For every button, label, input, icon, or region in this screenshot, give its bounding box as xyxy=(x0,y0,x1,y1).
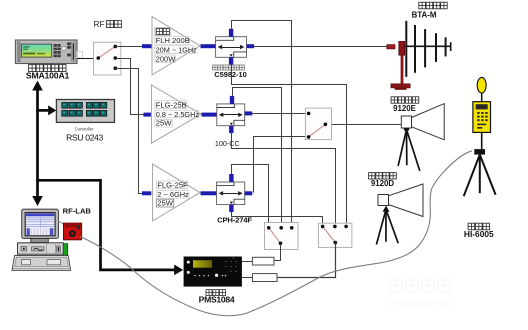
wire switch B to power sensor 1 xyxy=(275,244,281,261)
svg-text:BTA-M: BTA-M xyxy=(412,10,437,19)
svg-text:RSU 0243: RSU 0243 xyxy=(66,133,103,143)
controller RSU 0243 xyxy=(56,100,114,123)
signal generator SMA100A1 xyxy=(15,40,77,64)
control branch to RSU controller xyxy=(36,105,56,115)
switch B forward-power selector xyxy=(265,223,299,250)
svg-text:Controller: Controller xyxy=(74,126,94,131)
control bus signal generator to computer xyxy=(32,81,43,207)
wire coupler2 bottom to switch C middle xyxy=(232,133,336,227)
label 喇叭天线 9120D xyxy=(369,173,397,188)
wire switch C to power sensor 2 xyxy=(278,243,336,278)
amplifier FLG-25B xyxy=(144,85,217,143)
wire switch A output to horn 9120E xyxy=(325,124,401,126)
svg-text:HI-6005: HI-6005 xyxy=(464,229,494,239)
wire coupler1 bottom to switch C right xyxy=(232,65,347,227)
amplifier FLH 200B xyxy=(142,17,216,75)
svg-text:SMA100A1: SMA100A1 xyxy=(26,71,70,81)
wire coupler3 bottom to switch C left xyxy=(232,212,323,227)
RF switch xyxy=(94,42,121,75)
keyboard xyxy=(12,256,71,271)
tripod 9120E xyxy=(398,128,420,171)
floppy disk RF-LAB xyxy=(64,223,82,240)
wire sig-gen to RF switch xyxy=(77,51,83,58)
svg-text:200W: 200W xyxy=(156,55,177,64)
svg-text:photophoto.cn: photophoto.cn xyxy=(388,298,451,309)
power sensor 2 xyxy=(253,274,278,282)
wire coupler2 output to switch A input1 xyxy=(252,113,308,115)
label 宽带天线 BTA-M xyxy=(412,2,448,19)
horn antenna 9120E xyxy=(401,104,444,140)
wire coupler3 top to switch B left xyxy=(232,165,269,228)
label 场强表 HI-6005 xyxy=(464,223,494,239)
tripod 9120D xyxy=(376,206,398,245)
svg-text:FLG-25B: FLG-25B xyxy=(156,100,187,109)
switch A xyxy=(305,108,331,140)
computer case xyxy=(18,243,64,254)
coupler C5982-10 xyxy=(216,29,255,65)
svg-text:C5982-10: C5982-10 xyxy=(214,70,246,79)
power sensor 1 xyxy=(252,257,274,265)
control branch to power meter xyxy=(36,180,183,275)
wire switch to amp3 xyxy=(116,69,143,194)
wire switch to amp1 xyxy=(115,46,142,48)
watermark xyxy=(388,280,451,309)
label 功率计 PMS1084 xyxy=(199,290,235,305)
label 喇叭天线 9120E xyxy=(391,97,419,113)
wire power meter to sensor 2 xyxy=(242,277,253,279)
switch C reflected-power selector xyxy=(318,223,352,247)
coupler 100-CC xyxy=(217,96,253,133)
label Controller RSU 0243 xyxy=(66,126,103,142)
network card green xyxy=(63,244,67,256)
wire main line to BTA-M antenna xyxy=(254,46,387,48)
label 双定向耦合器 C5982-10 xyxy=(213,65,247,79)
horn antenna 9120D xyxy=(378,184,423,217)
wire coupler3 output to switch A input2 xyxy=(254,137,309,193)
wire power meter to sensor 1 xyxy=(242,261,253,263)
svg-text:FLH 200B: FLH 200B xyxy=(156,36,190,45)
wire monitor to floppy xyxy=(58,221,67,229)
svg-text:RF: RF xyxy=(94,20,105,29)
svg-text:PMS1084: PMS1084 xyxy=(199,295,235,305)
antenna BTA-M xyxy=(391,21,451,90)
svg-text:20M ~ 1GHz: 20M ~ 1GHz xyxy=(156,45,198,54)
label 信号发生器 xyxy=(26,65,70,81)
coupler CPH-274F xyxy=(217,174,253,212)
svg-text:9120D: 9120D xyxy=(371,179,395,188)
cable computer to field meter xyxy=(80,151,472,316)
svg-text:100-CC: 100-CC xyxy=(215,139,240,148)
computer monitor xyxy=(22,209,59,242)
svg-text:9120E: 9120E xyxy=(393,104,416,113)
svg-text:25W: 25W xyxy=(157,199,173,208)
label RF开关 xyxy=(94,20,122,29)
svg-text:RF-LAB: RF-LAB xyxy=(63,206,92,215)
wire coupler2 top to switch B middle xyxy=(233,88,282,228)
antenna feed stub dark red xyxy=(387,45,395,49)
svg-text:25W: 25W xyxy=(156,119,172,128)
field strength meter HI-6005 xyxy=(464,77,496,196)
svg-text:FLG-25F: FLG-25F xyxy=(157,181,188,190)
wire switch to amp2 xyxy=(116,59,144,115)
wire coupler1 top to switch B right xyxy=(232,21,292,228)
svg-text:0.8 ~ 2.5GHz: 0.8 ~ 2.5GHz xyxy=(156,110,200,119)
power meter PMS1084 xyxy=(184,257,242,287)
amplifier FLG-25F xyxy=(142,164,217,221)
